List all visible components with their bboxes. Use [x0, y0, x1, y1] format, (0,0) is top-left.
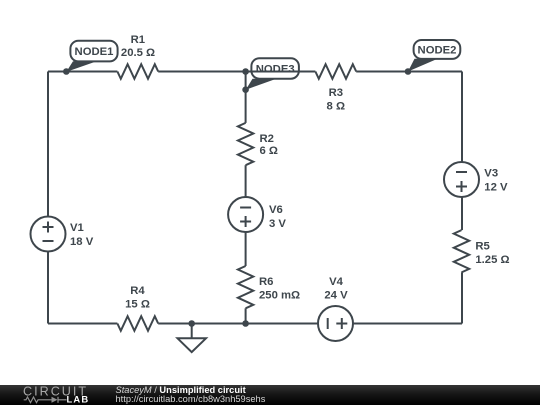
svg-text:12 V: 12 V	[484, 182, 508, 194]
svg-text:LAB: LAB	[67, 394, 90, 405]
svg-text:R6: R6	[259, 276, 273, 288]
wire between V6 and R6	[245, 232, 247, 266]
wire between R4 and V4	[158, 323, 318, 325]
resistor R3	[315, 64, 356, 112]
resistor R2	[238, 123, 278, 165]
footer url text	[116, 394, 266, 404]
wire between R2 and V6	[245, 165, 247, 197]
voltage source V3	[444, 162, 508, 197]
svg-text:V3: V3	[484, 168, 498, 180]
resistor R1	[117, 34, 158, 79]
svg-text:R5: R5	[475, 241, 489, 253]
junction dot at ground	[188, 320, 195, 327]
svg-text:V4: V4	[329, 276, 344, 288]
footer title text	[116, 385, 246, 395]
resistor R5	[454, 230, 510, 272]
svg-text:NODE3: NODE3	[256, 64, 295, 76]
svg-text:R4: R4	[130, 285, 145, 297]
svg-text:NODE2: NODE2	[418, 44, 457, 56]
resistor R4	[117, 285, 158, 331]
junction dot at NODE2	[405, 68, 412, 75]
wire bottom-right segment	[353, 323, 462, 325]
svg-text:15 Ω: 15 Ω	[125, 299, 150, 311]
resistor R6	[238, 266, 300, 308]
junction dot at NODE3	[242, 86, 249, 93]
svg-text:R3: R3	[329, 87, 343, 99]
ground	[178, 324, 207, 353]
node label NODE2	[408, 40, 460, 72]
svg-text:1.25 Ω: 1.25 Ω	[475, 254, 509, 266]
wire top-right segment	[356, 71, 462, 73]
wire between R1 and R3	[158, 71, 315, 73]
wire top-left segment	[48, 71, 117, 73]
svg-text:V6: V6	[269, 204, 283, 216]
wire left branch lower	[47, 252, 49, 324]
svg-text:3 V: 3 V	[269, 218, 286, 230]
svg-text:18 V: 18 V	[70, 236, 94, 248]
wire left branch upper	[47, 72, 49, 217]
svg-text:R1: R1	[131, 34, 145, 46]
wire between V3 and R5	[461, 197, 463, 230]
svg-text:8 Ω: 8 Ω	[327, 101, 345, 113]
wire middle branch bottom	[245, 308, 247, 323]
node label NODE1	[66, 41, 117, 72]
svg-text:R2: R2	[260, 133, 274, 145]
svg-text:6 Ω: 6 Ω	[260, 145, 278, 157]
junction dot at NODE1	[63, 68, 70, 75]
CircuitLab logo	[0, 384, 110, 405]
junction dot middle branch top	[242, 68, 249, 75]
svg-text:20.5 Ω: 20.5 Ω	[121, 47, 155, 59]
voltage source V1	[31, 217, 94, 252]
voltage source V6	[228, 197, 286, 232]
wire middle branch top	[245, 72, 247, 123]
wire bottom-left segment	[48, 323, 117, 325]
svg-text:V1: V1	[70, 222, 84, 234]
voltage source V4	[318, 276, 353, 341]
wire right branch lower	[461, 272, 463, 323]
junction dot middle branch bottom	[242, 320, 249, 327]
node label NODE3	[246, 58, 299, 89]
wire right branch upper	[461, 72, 463, 163]
svg-text:250 mΩ: 250 mΩ	[259, 290, 300, 302]
footer bar	[0, 385, 540, 405]
svg-text:24 V: 24 V	[324, 289, 348, 301]
svg-text:NODE1: NODE1	[75, 46, 114, 58]
